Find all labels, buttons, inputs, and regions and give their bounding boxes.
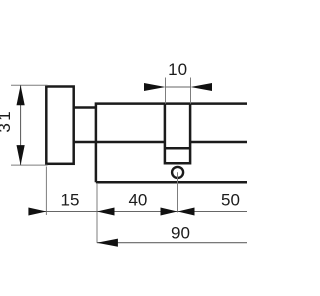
dim 31 arrow down	[17, 145, 25, 165]
extension line below body left	[96, 184, 98, 243]
cylinder body outline	[96, 104, 247, 183]
dim 10 extension line left	[165, 78, 167, 104]
svg-text:10: 10	[168, 60, 187, 79]
extension line below screw hole	[177, 172, 179, 212]
dim row line 15-40-50	[29, 211, 248, 213]
cam lug slot	[165, 104, 190, 164]
screw hole circle	[172, 167, 183, 178]
dim 31 extension line top	[11, 84, 48, 86]
dim 50 arrow left	[178, 208, 195, 216]
dim 10 line	[166, 86, 191, 88]
dim 40 arrow right	[161, 208, 178, 216]
dim 10 arrow left	[144, 83, 166, 91]
svg-text:50: 50	[221, 191, 240, 210]
dim 31 arrow up	[17, 85, 25, 105]
dim 31 line	[20, 85, 22, 165]
dim 40 arrow left	[97, 208, 115, 216]
dim 90 arrow left	[97, 239, 118, 247]
knob stem top edge	[73, 106, 96, 109]
dim 10 arrow right	[191, 83, 213, 91]
dim 10 extension line right	[190, 78, 192, 104]
svg-text:15: 15	[61, 191, 80, 210]
body mid parting line right segment	[190, 141, 247, 144]
svg-text:31: 31	[0, 109, 14, 133]
dim 31 extension line bottom	[11, 164, 48, 166]
svg-text:90: 90	[171, 224, 190, 243]
svg-text:40: 40	[128, 191, 147, 210]
extension line below knob left	[45, 167, 47, 216]
body mid parting line left segment	[74, 141, 165, 144]
thumbturn knob outline	[46, 87, 73, 164]
dim row line 90	[97, 242, 247, 244]
dim 15 arrow outside left	[28, 208, 46, 216]
